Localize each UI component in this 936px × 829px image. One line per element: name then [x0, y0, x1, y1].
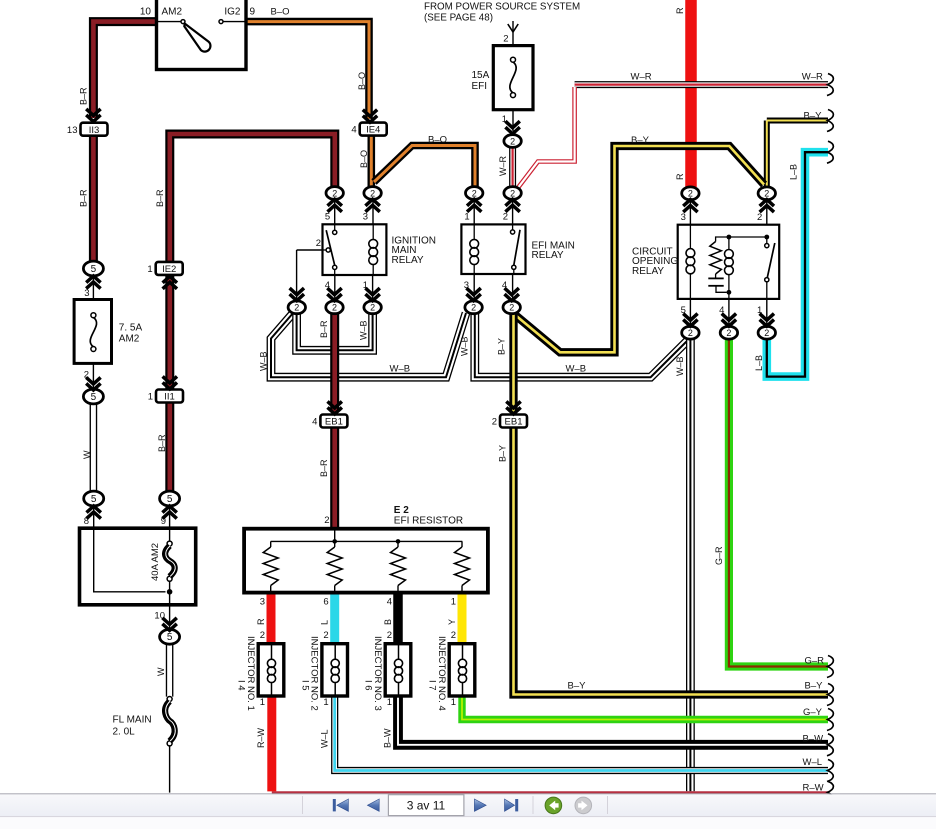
svg-text:2: 2 — [509, 303, 514, 313]
wire B-O ignition switch IG2 to connector IE4 — [246, 22, 369, 119]
wire Y resistor to injector no.4 — [458, 593, 467, 644]
wire ignition relay pin 1 lead — [372, 275, 374, 301]
arrow COR pin1 — [760, 320, 774, 327]
arrow ignition relay pin1 — [365, 294, 379, 301]
svg-text:AM2: AM2 — [162, 7, 183, 18]
wire W between 40A AM2 and fusible link FL MAIN — [166, 644, 174, 697]
relay box ignition main relay — [323, 224, 387, 275]
svg-text:W–R: W–R — [802, 72, 823, 83]
svg-text:40A AM2: 40A AM2 — [150, 543, 161, 581]
svg-text:B–R: B–R — [155, 189, 165, 207]
svg-text:IE2: IE2 — [162, 264, 176, 275]
svg-text:4: 4 — [719, 305, 724, 316]
wire resistor 3 top lead — [397, 541, 399, 547]
wire COR internal top node — [729, 236, 767, 238]
node ignition relay pin2 bottom connector — [288, 301, 305, 314]
svg-text:3: 3 — [84, 288, 89, 299]
injector no.1 — [258, 644, 284, 696]
EFI relay switch blade — [514, 230, 520, 265]
arrow COR pin4 — [722, 320, 736, 327]
svg-text:5: 5 — [91, 392, 97, 403]
wire circle 5 to 40A AM2 box right — [169, 506, 171, 528]
svg-text:W: W — [82, 450, 92, 459]
wire ignition relay switch bottom lead — [334, 270, 336, 276]
wire COR pin 1 lead — [766, 299, 768, 327]
svg-text:W–B: W–B — [566, 363, 587, 374]
connector II1 — [156, 390, 183, 403]
wire COR switch top lead — [766, 237, 768, 244]
svg-text:B–Y: B–Y — [805, 681, 824, 692]
resistor element 1 — [263, 547, 278, 586]
node COR pin1 bottom connector — [758, 326, 775, 339]
svg-text:1: 1 — [323, 697, 328, 708]
svg-text:2: 2 — [688, 328, 693, 338]
svg-text:L: L — [320, 620, 330, 625]
coil circuit opening relay center — [725, 250, 734, 259]
wire B-Y from EFI main relay pin 4 to circuit opening relay pin 2 — [514, 146, 764, 352]
svg-text:1: 1 — [363, 280, 368, 291]
wire R-W injector no.1 down — [267, 696, 276, 791]
svg-text:1: 1 — [260, 697, 265, 708]
svg-text:2: 2 — [370, 303, 375, 313]
svg-text:4: 4 — [325, 280, 330, 291]
ignition switch — [157, 0, 247, 70]
wire COR pin 5 lead — [689, 299, 691, 327]
svg-text:5: 5 — [167, 494, 173, 505]
svg-text:IE4: IE4 — [366, 125, 380, 136]
squiggle G-Y continuation — [827, 709, 833, 731]
svg-text:RELAY: RELAY — [632, 266, 664, 277]
svg-text:B: B — [383, 619, 393, 625]
wire W-L injector no.2 to right edge — [335, 696, 828, 771]
button back (green) — [545, 797, 562, 814]
capacitor circuit opening relay — [708, 277, 723, 279]
squiggle B-W continuation — [827, 734, 833, 756]
ignition switch AM2 contact — [181, 20, 185, 24]
svg-text:1: 1 — [757, 305, 762, 316]
wire G-Y injector no.4 to right edge — [462, 696, 828, 720]
svg-text:B–R: B–R — [79, 87, 89, 105]
wire W-B ignition relay pin 2 to pin 1 — [297, 314, 373, 351]
relay box EFI main relay — [461, 224, 525, 274]
arrow into II3 — [86, 115, 100, 122]
wire B-O below IE4 to ignition relay pin 3 — [367, 135, 375, 187]
svg-text:W–B: W–B — [460, 336, 470, 356]
fuse 15A EFI box — [493, 46, 533, 110]
wire 40A AM2 internal left branch — [94, 528, 166, 592]
svg-text:R: R — [675, 173, 685, 180]
button previous page — [367, 799, 379, 811]
node EFI relay pin2 top connector — [504, 187, 521, 200]
node connector 5 right above 40A — [160, 491, 180, 506]
svg-text:2: 2 — [503, 34, 508, 45]
injector no.2 — [322, 644, 348, 696]
coil circuit opening relay left — [686, 249, 695, 258]
wire B resistor to injector no.3 — [393, 593, 403, 644]
wire EFI relay switch top lead — [512, 224, 514, 230]
svg-text:W: W — [156, 667, 166, 676]
svg-text:G–R: G–R — [805, 656, 825, 667]
svg-text:W–L: W–L — [803, 757, 823, 768]
svg-text:2: 2 — [726, 328, 731, 338]
wire W-B from circuit opening relay pin 5 down to page edge — [686, 339, 695, 791]
wire COR switch bottom lead — [766, 282, 768, 299]
wire 40A AM2 internal top lead — [169, 528, 171, 541]
arrow EFI relay pin4 — [505, 294, 519, 301]
wire 15A EFI fuse to connector circle — [512, 110, 514, 131]
svg-text:2. 0L: 2. 0L — [113, 727, 136, 738]
injector no.3 — [385, 644, 411, 696]
svg-text:II1: II1 — [164, 392, 175, 403]
svg-text:3: 3 — [260, 597, 265, 608]
wire L resistor to injector no.2 — [330, 593, 339, 644]
svg-text:W–B: W–B — [675, 356, 685, 376]
connector II3 — [81, 123, 108, 136]
svg-text:3: 3 — [681, 212, 686, 223]
fuse 40A AM2 box — [80, 528, 196, 605]
arrow into EB1 right — [506, 407, 520, 414]
node fuse 15A output connector — [504, 135, 521, 148]
arrow ignition relay pin5 — [328, 199, 342, 206]
svg-text:2: 2 — [764, 328, 769, 338]
node connector 5 below 40A — [160, 629, 180, 644]
wire COR resistor top lead — [716, 237, 729, 242]
arrow into IE4 — [363, 116, 377, 123]
wire B-Y from circuit opening relay pin 2 to right edge — [767, 121, 828, 187]
svg-text:W–L: W–L — [319, 729, 329, 748]
arrow into circle 5 right — [162, 506, 176, 513]
wire ignition relay coil top lead — [372, 224, 374, 239]
svg-text:(SEE PAGE 48): (SEE PAGE 48) — [424, 13, 493, 24]
svg-text:B–Y: B–Y — [498, 445, 508, 462]
svg-text:2: 2 — [370, 188, 375, 198]
fuse 7.5A AM2 element — [91, 313, 96, 318]
wire W-R branch from EFI main relay pin 2 — [517, 87, 575, 189]
wire R red feed to circuit opening relay pin 3 — [685, 0, 697, 187]
svg-text:3: 3 — [464, 280, 469, 291]
svg-text:2: 2 — [757, 212, 762, 223]
arrow into circle 5 left — [87, 506, 101, 513]
svg-text:EFI: EFI — [472, 81, 488, 92]
node EFI relay pin4 bottom connector — [503, 301, 520, 314]
svg-text:L–B: L–B — [789, 164, 799, 180]
wire EFI resistor feed — [334, 531, 336, 542]
svg-text:EFI RESISTOR: EFI RESISTOR — [394, 516, 463, 527]
wire B-R between IE2 and II1 — [165, 275, 174, 390]
button forward (gray) — [575, 797, 592, 814]
svg-text:5: 5 — [325, 212, 330, 223]
svg-text:3: 3 — [363, 212, 368, 223]
connector EB1 right — [500, 415, 527, 428]
coil injector no.2 — [331, 659, 339, 667]
svg-text:3 av 11: 3 av 11 — [407, 799, 446, 813]
wire EFI relay coil top lead — [473, 224, 475, 239]
node connector 5 below fuse AM2 — [83, 389, 103, 404]
arrow COR pin3 — [683, 200, 697, 207]
wire B-O branch to EFI main relay pin 1 — [374, 146, 475, 187]
button next page — [474, 799, 486, 811]
svg-text:G–Y: G–Y — [803, 707, 823, 718]
arrow into 15A fuse connector circle — [505, 127, 519, 134]
svg-text:1: 1 — [147, 264, 152, 275]
svg-text:W–B: W–B — [358, 320, 368, 340]
svg-text:B–R: B–R — [319, 320, 329, 338]
svg-text:2: 2 — [332, 303, 337, 313]
page number input — [388, 795, 464, 816]
svg-text:R–W: R–W — [256, 727, 266, 748]
svg-text:1: 1 — [451, 697, 456, 708]
wire B-R ignition relay pin 5 to connector IE2 — [170, 134, 335, 262]
arrow into IE2 — [163, 276, 177, 283]
svg-text:10: 10 — [140, 7, 152, 18]
wire EFI relay switch bottom lead — [513, 269, 515, 274]
connector IE4 — [360, 123, 387, 136]
wire COR pin 3 lead — [689, 200, 691, 225]
squiggle W-L continuation — [827, 760, 833, 782]
svg-text:B–O: B–O — [359, 150, 369, 168]
wire ignition relay pin2 internal — [323, 249, 327, 251]
wire ignition relay switch top lead — [334, 224, 336, 230]
wire B-R ignition switch AM2 to connector II3 — [93, 22, 156, 118]
node ignition relay pin3 top connector — [364, 187, 381, 200]
svg-text:R–W: R–W — [803, 783, 824, 794]
svg-text:INJECTOR NO. 2: INJECTOR NO. 2 — [309, 636, 320, 711]
arrow from power source — [508, 24, 518, 32]
svg-text:R: R — [675, 7, 685, 14]
svg-text:9: 9 — [250, 7, 256, 18]
svg-text:4: 4 — [312, 417, 317, 428]
connector IE2 — [156, 262, 183, 275]
svg-text:1: 1 — [451, 597, 456, 608]
wire fuse 7.5A AM2 to circle 5 — [92, 363, 94, 389]
arrow into circle 5 — [86, 276, 100, 283]
svg-text:B–R: B–R — [79, 189, 89, 207]
svg-text:B–R: B–R — [157, 434, 167, 452]
svg-text:2: 2 — [324, 515, 329, 526]
wire COR resistor to capacitor — [715, 274, 717, 278]
node ignition relay pin1 bottom connector — [364, 301, 381, 314]
resistor element 4 — [455, 547, 470, 586]
arrow COR pin2 — [760, 200, 774, 207]
svg-text:W–R: W–R — [498, 156, 508, 177]
arrow ignition relay pin3 — [365, 199, 379, 206]
svg-text:2: 2 — [316, 238, 321, 249]
squiggle L-B continuation — [827, 141, 833, 163]
wire W-R between 15A EFI fuse connector and EFI main relay pin 2 — [509, 147, 516, 186]
coil EFI main relay — [470, 239, 479, 248]
svg-text:RELAY: RELAY — [392, 255, 424, 266]
svg-text:RELAY: RELAY — [532, 250, 564, 261]
svg-text:2: 2 — [510, 136, 515, 146]
svg-text:FL MAIN: FL MAIN — [113, 715, 152, 726]
node COR pin5 bottom connector — [682, 326, 699, 339]
wire B-W injector no.3 to right edge — [398, 696, 828, 745]
fuse 7.5A AM2 box — [74, 300, 111, 364]
wire COR pin 2 lead — [766, 200, 768, 225]
svg-text:B–Y: B–Y — [497, 338, 507, 355]
wire below FL MAIN to page edge — [169, 745, 171, 792]
wire ignition switch AM2 contact lead — [157, 21, 182, 23]
svg-text:2: 2 — [510, 188, 515, 198]
COR switch blade — [767, 243, 775, 278]
wire EFI relay pin 2 lead — [512, 199, 514, 224]
svg-text:IG2: IG2 — [224, 7, 241, 18]
wire ignition switch IG2 contact lead — [223, 21, 246, 23]
svg-text:4: 4 — [502, 280, 507, 291]
ignition relay switch blade — [326, 230, 335, 265]
wire fuse 7.5A internal leads — [92, 300, 94, 364]
wire EFI relay pin 3 lead — [473, 274, 475, 301]
svg-text:EB1: EB1 — [325, 417, 343, 428]
wire W-B ignition relay pin 2 to EFI relay pin 3 — [271, 312, 466, 377]
svg-text:G–R: G–R — [714, 546, 724, 565]
svg-text:2: 2 — [387, 630, 392, 641]
svg-text:R: R — [256, 618, 266, 625]
wire ignition relay pin 5 lead — [334, 199, 336, 224]
wire EFI relay pin 1 lead — [473, 199, 475, 224]
svg-text:5: 5 — [91, 494, 97, 505]
wire COR coil1 bottom lead — [689, 273, 691, 299]
svg-text:AM2: AM2 — [119, 334, 140, 345]
fuse 15A EFI element — [511, 57, 516, 62]
arrow into circle 5 below 40A — [162, 624, 176, 631]
wire B-Y EFI relay pin 4 down to EB1 — [509, 314, 517, 412]
wire ignition relay pin 3 lead — [372, 199, 374, 224]
svg-text:4: 4 — [351, 125, 356, 136]
svg-text:7. 5A: 7. 5A — [119, 323, 143, 334]
wire 40A AM2 box to circle 5 — [169, 605, 171, 630]
wire B-Y below EB1 to right edge — [514, 427, 829, 695]
squiggle R-W continuation — [827, 781, 833, 803]
svg-text:2: 2 — [323, 630, 328, 641]
wire from power source into 15A EFI fuse — [512, 21, 514, 46]
wire circle 5 to 40A AM2 box left — [93, 506, 95, 528]
svg-text:2: 2 — [471, 303, 476, 313]
wire B-R from II3 down to fuse AM2 — [89, 136, 98, 262]
svg-text:2: 2 — [764, 189, 769, 199]
svg-text:1: 1 — [148, 392, 153, 403]
node ignition relay pin4 bottom connector — [326, 301, 343, 314]
wire G-R circuit opening relay pin 4 to right edge — [729, 339, 828, 667]
arrow EFI relay pin1 — [467, 199, 481, 206]
svg-text:B–Y: B–Y — [568, 681, 587, 692]
wire resistor 2 top lead — [334, 541, 336, 547]
wire COR coil2 bottom lead — [728, 274, 730, 299]
wire ignition relay coil bottom lead — [372, 264, 374, 275]
node COR pin3 top connector — [682, 187, 699, 200]
svg-text:2: 2 — [472, 188, 477, 198]
svg-text:5: 5 — [681, 305, 686, 316]
node COR pin2 top connector — [758, 187, 775, 200]
EFI resistor box E2 — [244, 529, 488, 593]
svg-text:2: 2 — [332, 188, 337, 198]
injector no.4 — [449, 644, 475, 696]
wire COR capacitor bottom lead — [716, 286, 727, 293]
svg-text:2: 2 — [688, 189, 693, 199]
svg-text:W–B: W–B — [258, 351, 268, 371]
ignition switch IG2 contact — [219, 20, 223, 24]
svg-text:II3: II3 — [89, 125, 100, 136]
svg-text:2: 2 — [492, 417, 497, 428]
coil injector no.3 — [394, 659, 402, 667]
squiggle W-R continuation — [827, 74, 833, 96]
svg-text:1: 1 — [464, 212, 469, 223]
svg-text:INJECTOR NO. 3: INJECTOR NO. 3 — [372, 636, 383, 711]
svg-text:4: 4 — [387, 597, 392, 608]
node connector 5 below II3 — [83, 261, 103, 276]
svg-text:FROM POWER SOURCE SYSTEM: FROM POWER SOURCE SYSTEM — [424, 2, 580, 13]
arrow into II1 — [163, 382, 177, 389]
svg-text:B–O: B–O — [271, 7, 290, 18]
wire B-R below EB1 to EFI resistor — [330, 427, 339, 530]
svg-text:2: 2 — [503, 212, 508, 223]
node EFI relay pin3 bottom connector — [465, 301, 482, 314]
toolbar separators — [302, 796, 303, 814]
node COR pin4 bottom connector — [720, 326, 737, 339]
arrow EFI relay pin3 — [466, 294, 480, 301]
wire EFI relay pin 4 lead — [512, 274, 514, 301]
coil ignition main relay — [369, 239, 378, 248]
wire 40A AM2 internal bottom lead — [169, 581, 171, 605]
squiggle B-Y top continuation — [827, 110, 833, 132]
svg-text:INJECTOR NO. 4: INJECTOR NO. 4 — [436, 636, 447, 711]
wire 15A EFI internal leads — [512, 46, 514, 110]
svg-text:B–W: B–W — [383, 728, 393, 748]
node EFI relay pin1 top connector — [466, 187, 483, 200]
svg-text:2: 2 — [294, 303, 299, 313]
svg-text:L–B: L–B — [754, 355, 764, 371]
arrow ignition relay pin2 — [290, 294, 304, 301]
squiggle G-R continuation — [827, 656, 833, 678]
svg-text:1: 1 — [387, 697, 392, 708]
fuse 40A AM2 element — [167, 541, 172, 546]
arrow EFI relay pin2 — [505, 199, 519, 206]
wire EFI resistor bus — [271, 540, 463, 542]
node connector 5 left above 40A — [84, 491, 104, 506]
wire ignition relay pin 2 lead — [297, 250, 323, 301]
svg-text:Y: Y — [447, 619, 457, 625]
svg-text:5: 5 — [91, 264, 97, 275]
svg-text:2: 2 — [260, 630, 265, 641]
coil injector no.1 — [267, 659, 275, 667]
wire resistor 1 top lead — [270, 541, 272, 547]
wire COR pin 4 lead — [728, 299, 730, 327]
svg-text:W–B: W–B — [390, 363, 411, 374]
fusible link FL MAIN 2.0L — [167, 697, 172, 702]
svg-text:B–Y: B–Y — [631, 135, 650, 146]
arrow into EB1 left — [328, 407, 342, 414]
coil injector no.4 — [458, 659, 466, 667]
svg-text:B–O: B–O — [428, 135, 447, 146]
resistor circuit opening relay — [710, 242, 722, 275]
svg-text:B–Y: B–Y — [804, 110, 823, 121]
svg-text:15A: 15A — [472, 70, 490, 81]
svg-text:13: 13 — [67, 125, 78, 136]
svg-text:B–W: B–W — [803, 734, 824, 745]
svg-text:E 2: E 2 — [394, 505, 409, 516]
arrow ignition relay pin4 — [327, 294, 341, 301]
svg-text:B–O: B–O — [357, 72, 367, 90]
svg-text:2: 2 — [451, 630, 456, 641]
wire ignition relay pin 4 lead — [334, 275, 336, 301]
arrow into circle 5 from fuse — [86, 383, 100, 390]
connector EB1 left — [320, 415, 347, 428]
resistor element 2 — [327, 547, 342, 586]
svg-text:6: 6 — [323, 597, 328, 608]
wire resistor 4 top lead — [461, 541, 463, 547]
arrow COR pin5 — [683, 320, 697, 327]
relay box circuit opening relay — [678, 225, 780, 299]
